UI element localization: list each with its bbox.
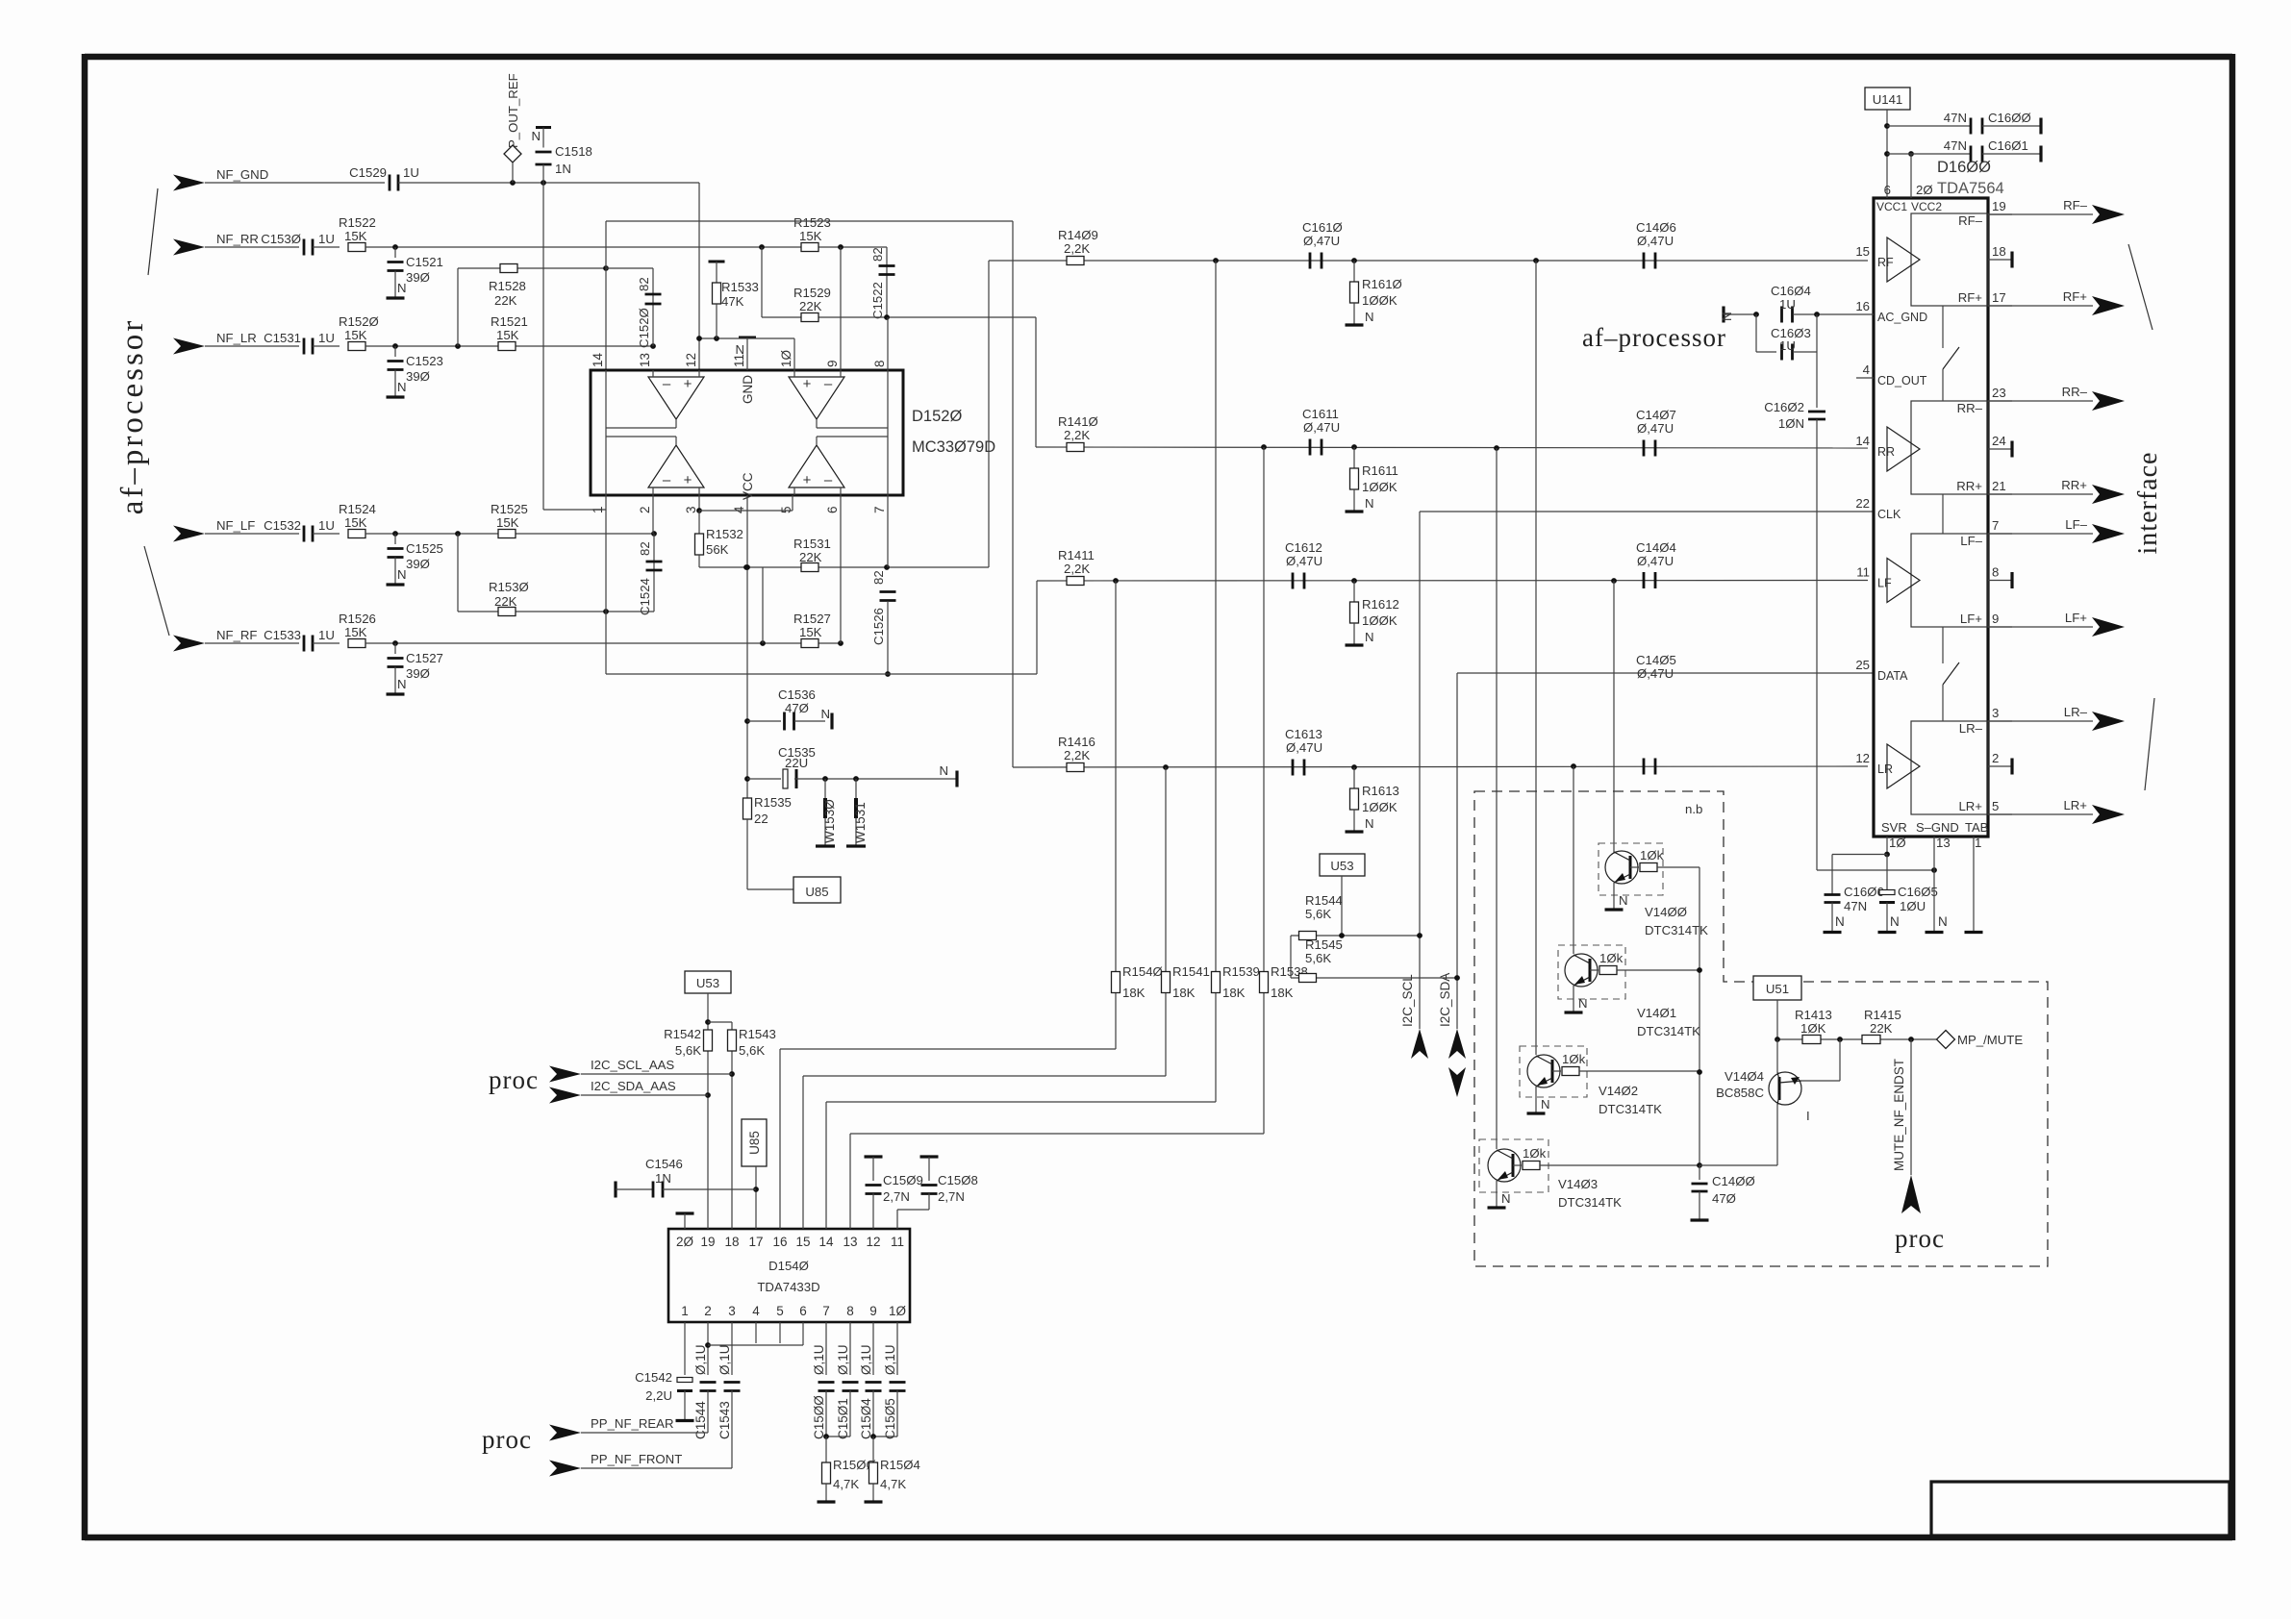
svg-text:N: N xyxy=(1501,1191,1511,1206)
svg-text:Ø,1U: Ø,1U xyxy=(836,1344,850,1375)
svg-text:DTC314TK: DTC314TK xyxy=(1558,1195,1622,1210)
svg-text:N: N xyxy=(1720,312,1734,321)
svg-text:C14Ø7: C14Ø7 xyxy=(1636,408,1676,422)
svg-text:I2C_SCL: I2C_SCL xyxy=(1400,974,1415,1027)
svg-text:R152Ø: R152Ø xyxy=(339,314,379,329)
svg-text:25: 25 xyxy=(1855,658,1870,672)
svg-text:–: – xyxy=(663,472,671,488)
svg-text:C152Ø: C152Ø xyxy=(637,308,651,348)
svg-text:47N: 47N xyxy=(1944,111,1967,125)
svg-text:2Ø: 2Ø xyxy=(676,1235,694,1249)
svg-text:Ø,1U: Ø,1U xyxy=(812,1344,826,1375)
svg-text:C1536: C1536 xyxy=(778,687,816,702)
svg-text:2,2K: 2,2K xyxy=(1064,241,1090,256)
svg-text:C16Ø4: C16Ø4 xyxy=(1771,284,1811,298)
svg-text:LF–: LF– xyxy=(1960,534,1982,548)
svg-text:R141Ø: R141Ø xyxy=(1058,414,1098,429)
svg-text:5,6K: 5,6K xyxy=(675,1043,701,1058)
svg-text:U85: U85 xyxy=(805,885,828,899)
svg-text:LR+: LR+ xyxy=(2063,798,2087,812)
svg-text:U141: U141 xyxy=(1873,92,1903,107)
svg-text:N: N xyxy=(1365,496,1374,511)
svg-text:1Ø: 1Ø xyxy=(1889,836,1906,850)
svg-text:W1531: W1531 xyxy=(853,802,868,843)
svg-text:C15Ø8: C15Ø8 xyxy=(938,1173,978,1187)
svg-text:6: 6 xyxy=(799,1304,807,1318)
svg-text:1ØU: 1ØU xyxy=(1900,899,1926,913)
svg-text:LF: LF xyxy=(1877,577,1892,590)
svg-text:C1529: C1529 xyxy=(349,165,387,180)
svg-text:15K: 15K xyxy=(496,328,519,342)
svg-text:C16Ø2: C16Ø2 xyxy=(1764,400,1804,414)
svg-text:N: N xyxy=(397,380,407,394)
svg-text:47N: 47N xyxy=(1844,899,1867,913)
svg-text:16: 16 xyxy=(772,1235,787,1249)
svg-text:R1541: R1541 xyxy=(1172,964,1210,979)
svg-text:82: 82 xyxy=(637,277,651,291)
svg-text:Ø,47U: Ø,47U xyxy=(1286,554,1322,568)
svg-text:C16ØØ: C16ØØ xyxy=(1988,111,2031,125)
svg-text:R1539: R1539 xyxy=(1222,964,1260,979)
svg-text:C1611: C1611 xyxy=(1302,407,1339,421)
svg-text:1U: 1U xyxy=(318,232,335,246)
svg-text:RF+: RF+ xyxy=(2063,289,2088,304)
svg-text:NF_LR: NF_LR xyxy=(216,331,257,345)
svg-text:1N: 1N xyxy=(655,1171,671,1186)
svg-text:TDA7433D: TDA7433D xyxy=(757,1280,819,1294)
svg-text:I2C_SDA_AAS: I2C_SDA_AAS xyxy=(591,1079,676,1093)
svg-text:R1532: R1532 xyxy=(706,527,743,541)
svg-text:PP_NF_REAR: PP_NF_REAR xyxy=(591,1416,673,1431)
svg-text:RR–: RR– xyxy=(1957,401,1983,415)
svg-text:R1531: R1531 xyxy=(793,537,831,551)
svg-text:V14Ø1: V14Ø1 xyxy=(1637,1006,1676,1020)
svg-text:1ØØK: 1ØØK xyxy=(1362,480,1397,494)
svg-text:4,7K: 4,7K xyxy=(880,1477,906,1491)
svg-text:82: 82 xyxy=(871,570,886,585)
svg-text:1U: 1U xyxy=(318,518,335,533)
svg-text:af–processor: af–processor xyxy=(115,318,150,515)
svg-text:15K: 15K xyxy=(496,515,519,530)
svg-text:C1518: C1518 xyxy=(555,144,592,159)
svg-text:I2C_SDA: I2C_SDA xyxy=(1438,973,1452,1027)
svg-text:18K: 18K xyxy=(1172,986,1196,1000)
svg-text:proc: proc xyxy=(489,1065,539,1094)
svg-text:N: N xyxy=(531,129,541,143)
svg-text:R1416: R1416 xyxy=(1058,735,1095,749)
svg-text:1ØØK: 1ØØK xyxy=(1362,613,1397,628)
svg-text:1Ø: 1Ø xyxy=(889,1304,907,1318)
svg-text:39Ø: 39Ø xyxy=(406,557,430,571)
svg-text:15: 15 xyxy=(795,1235,810,1249)
svg-text:R1545: R1545 xyxy=(1305,937,1343,952)
svg-text:S–GND: S–GND xyxy=(1916,820,1959,835)
svg-text:R1533: R1533 xyxy=(721,280,759,294)
svg-text:R1535: R1535 xyxy=(754,795,792,810)
svg-text:NF_LF: NF_LF xyxy=(216,518,255,533)
svg-text:C16Ø6: C16Ø6 xyxy=(1844,885,1884,899)
svg-text:C1542: C1542 xyxy=(635,1370,672,1385)
svg-text:R15Ø4: R15Ø4 xyxy=(880,1458,920,1472)
svg-text:NF_RR: NF_RR xyxy=(216,232,259,246)
svg-text:9: 9 xyxy=(825,360,840,367)
svg-text:C14ØØ: C14ØØ xyxy=(1712,1174,1755,1188)
svg-text:D154Ø: D154Ø xyxy=(768,1259,809,1273)
svg-text:39Ø: 39Ø xyxy=(406,666,430,681)
svg-text:18K: 18K xyxy=(1222,986,1246,1000)
svg-text:7: 7 xyxy=(872,506,887,513)
svg-text:C15ØØ: C15ØØ xyxy=(812,1395,826,1439)
svg-text:4: 4 xyxy=(1863,362,1870,377)
svg-text:47N: 47N xyxy=(1944,138,1967,153)
svg-text:23: 23 xyxy=(1992,386,2006,400)
svg-text:CD_OUT: CD_OUT xyxy=(1877,374,1927,387)
svg-text:C15Ø4: C15Ø4 xyxy=(859,1398,873,1439)
svg-text:N: N xyxy=(1578,996,1588,1011)
svg-text:1ØØK: 1ØØK xyxy=(1362,800,1397,814)
svg-text:56K: 56K xyxy=(706,542,729,557)
svg-text:proc: proc xyxy=(1895,1224,1945,1253)
svg-text:C16Ø5: C16Ø5 xyxy=(1898,885,1938,899)
svg-text:1: 1 xyxy=(591,506,605,513)
svg-text:18: 18 xyxy=(724,1235,739,1249)
svg-text:af–processor: af–processor xyxy=(1582,323,1726,352)
svg-text:C1523: C1523 xyxy=(406,354,443,368)
svg-text:C16Ø1: C16Ø1 xyxy=(1988,138,2028,153)
svg-text:D152Ø: D152Ø xyxy=(912,408,962,425)
svg-text:V14Ø2: V14Ø2 xyxy=(1599,1084,1638,1098)
svg-text:–: – xyxy=(824,472,833,488)
svg-text:–: – xyxy=(663,376,671,392)
svg-text:N: N xyxy=(1890,914,1900,929)
svg-text:Ø,1U: Ø,1U xyxy=(883,1344,897,1375)
svg-text:47Ø: 47Ø xyxy=(1712,1191,1736,1206)
svg-text:Ø,47U: Ø,47U xyxy=(1286,740,1322,755)
svg-text:2,2K: 2,2K xyxy=(1064,428,1090,442)
svg-text:R1411: R1411 xyxy=(1058,548,1095,562)
svg-text:2,7N: 2,7N xyxy=(883,1189,910,1204)
svg-text:C1525: C1525 xyxy=(406,541,443,556)
svg-text:12: 12 xyxy=(866,1235,880,1249)
svg-text:11: 11 xyxy=(891,1235,904,1249)
svg-text:BC858C: BC858C xyxy=(1716,1086,1764,1100)
svg-text:13: 13 xyxy=(638,353,652,367)
svg-text:1Øk: 1Øk xyxy=(1523,1146,1547,1161)
svg-text:+: + xyxy=(803,376,812,392)
svg-text:12: 12 xyxy=(1855,751,1870,765)
svg-text:R1529: R1529 xyxy=(793,286,831,300)
svg-text:N: N xyxy=(397,677,407,691)
svg-text:AC_GND: AC_GND xyxy=(1877,311,1927,324)
svg-text:22K: 22K xyxy=(494,293,517,308)
svg-text:RR: RR xyxy=(1877,445,1895,459)
svg-text:C15Ø5: C15Ø5 xyxy=(883,1398,897,1439)
svg-text:I2C_SCL_AAS: I2C_SCL_AAS xyxy=(591,1058,674,1072)
svg-text:R1528: R1528 xyxy=(489,279,526,293)
svg-text:Ø,47U: Ø,47U xyxy=(1637,554,1674,568)
svg-text:TAB: TAB xyxy=(1965,820,1988,835)
svg-text:C1532: C1532 xyxy=(264,518,301,533)
svg-text:DTC314TK: DTC314TK xyxy=(1637,1024,1700,1038)
svg-text:2Ø: 2Ø xyxy=(1916,183,1933,197)
svg-text:1N: 1N xyxy=(555,162,571,176)
svg-text:17: 17 xyxy=(1992,290,2006,305)
svg-text:R154Ø: R154Ø xyxy=(1122,964,1163,979)
svg-text:1: 1 xyxy=(681,1304,689,1318)
svg-text:C1544: C1544 xyxy=(693,1401,708,1439)
svg-text:1ØK: 1ØK xyxy=(1800,1021,1826,1036)
svg-text:3: 3 xyxy=(1992,706,1999,720)
svg-text:15: 15 xyxy=(1855,244,1870,259)
svg-text:21: 21 xyxy=(1992,479,2006,493)
svg-text:82: 82 xyxy=(638,541,652,556)
svg-text:VCC2: VCC2 xyxy=(1911,200,1942,213)
svg-text:R1544: R1544 xyxy=(1305,893,1343,908)
svg-text:1U: 1U xyxy=(1779,297,1796,312)
svg-text:47Ø: 47Ø xyxy=(785,701,809,715)
svg-text:R1522: R1522 xyxy=(339,215,376,230)
svg-text:LF–: LF– xyxy=(2065,517,2087,532)
svg-text:C1543: C1543 xyxy=(718,1401,732,1439)
svg-text:1Øk: 1Øk xyxy=(1562,1052,1586,1066)
svg-text:14: 14 xyxy=(591,352,605,367)
svg-text:TDA7564: TDA7564 xyxy=(1937,180,2004,197)
svg-text:LR–: LR– xyxy=(1959,721,1983,736)
svg-text:2,7N: 2,7N xyxy=(938,1189,965,1204)
svg-text:82: 82 xyxy=(870,247,885,262)
svg-text:Ø,1U: Ø,1U xyxy=(693,1344,708,1375)
svg-text:3: 3 xyxy=(684,506,698,513)
svg-text:NF_RF: NF_RF xyxy=(216,628,258,642)
svg-text:LR: LR xyxy=(1877,762,1893,776)
svg-text:PP_NF_FRONT: PP_NF_FRONT xyxy=(591,1452,682,1466)
svg-text:22K: 22K xyxy=(1870,1021,1893,1036)
svg-text:CLK: CLK xyxy=(1877,508,1901,521)
svg-text:C15Ø9: C15Ø9 xyxy=(883,1173,923,1187)
svg-text:1: 1 xyxy=(1975,836,1981,850)
svg-text:1U: 1U xyxy=(318,331,335,345)
svg-text:R1523: R1523 xyxy=(793,215,831,230)
svg-text:18K: 18K xyxy=(1122,986,1145,1000)
svg-text:LR–: LR– xyxy=(2064,705,2088,719)
svg-text:C14Ø4: C14Ø4 xyxy=(1636,540,1676,555)
svg-text:14: 14 xyxy=(1855,434,1870,448)
svg-text:Ø,47U: Ø,47U xyxy=(1637,234,1674,248)
svg-text:15K: 15K xyxy=(344,328,367,342)
svg-text:C1524: C1524 xyxy=(638,578,652,615)
svg-text:MC33Ø79D: MC33Ø79D xyxy=(912,438,995,456)
svg-text:N: N xyxy=(1365,630,1374,644)
svg-text:–: – xyxy=(824,376,833,392)
svg-text:18K: 18K xyxy=(1271,986,1294,1000)
svg-text:U85: U85 xyxy=(747,1131,762,1155)
svg-text:19: 19 xyxy=(1992,199,2006,213)
svg-text:7: 7 xyxy=(1992,518,1999,533)
svg-text:2,2U: 2,2U xyxy=(645,1388,672,1403)
svg-text:5: 5 xyxy=(779,506,793,513)
svg-text:12: 12 xyxy=(684,353,698,367)
svg-text:N: N xyxy=(397,567,407,582)
svg-text:R1613: R1613 xyxy=(1362,784,1399,798)
svg-text:MP_/MUTE: MP_/MUTE xyxy=(1957,1033,2023,1047)
svg-text:4,7K: 4,7K xyxy=(833,1477,859,1491)
svg-text:DTC314TK: DTC314TK xyxy=(1599,1102,1662,1116)
svg-text:R1526: R1526 xyxy=(339,612,376,626)
svg-text:5: 5 xyxy=(1992,799,1999,813)
svg-text:+: + xyxy=(803,472,812,488)
svg-text:R14Ø9: R14Ø9 xyxy=(1058,228,1098,242)
svg-text:D16ØØ: D16ØØ xyxy=(1937,159,1991,176)
svg-text:N: N xyxy=(1365,310,1374,324)
svg-text:N: N xyxy=(939,763,948,778)
svg-text:DATA: DATA xyxy=(1877,669,1908,683)
svg-text:C1546: C1546 xyxy=(645,1157,683,1171)
svg-text:24: 24 xyxy=(1992,434,2006,448)
svg-text:22K: 22K xyxy=(799,550,822,564)
svg-text:1ØN: 1ØN xyxy=(1778,416,1804,431)
svg-text:Ø,47U: Ø,47U xyxy=(1637,421,1674,436)
svg-text:19: 19 xyxy=(700,1235,715,1249)
svg-text:39Ø: 39Ø xyxy=(406,270,430,285)
svg-text:15K: 15K xyxy=(799,625,822,639)
svg-text:1ØØK: 1ØØK xyxy=(1362,293,1397,308)
svg-text:4: 4 xyxy=(732,506,746,513)
svg-text:39Ø: 39Ø xyxy=(406,369,430,384)
svg-text:Ø,1U: Ø,1U xyxy=(718,1344,732,1375)
svg-text:N: N xyxy=(1541,1097,1550,1112)
svg-text:C153Ø: C153Ø xyxy=(261,232,301,246)
svg-text:5,6K: 5,6K xyxy=(1305,907,1331,921)
svg-text:N: N xyxy=(735,342,744,357)
svg-text:1U: 1U xyxy=(318,628,335,642)
svg-text:C1613: C1613 xyxy=(1285,727,1322,741)
svg-text:6: 6 xyxy=(825,506,840,513)
svg-text:C1521: C1521 xyxy=(406,255,443,269)
svg-text:11: 11 xyxy=(1856,565,1870,580)
svg-text:V14ØØ: V14ØØ xyxy=(1645,905,1687,919)
svg-text:2,2K: 2,2K xyxy=(1064,562,1090,576)
svg-text:C14Ø5: C14Ø5 xyxy=(1636,653,1676,667)
svg-text:6: 6 xyxy=(1884,183,1891,197)
svg-text:R1543: R1543 xyxy=(739,1027,776,1041)
svg-text:RF: RF xyxy=(1877,256,1894,269)
svg-text:RF–: RF– xyxy=(1958,213,1983,228)
svg-text:22: 22 xyxy=(754,812,768,826)
svg-text:VCC1: VCC1 xyxy=(1876,200,1907,213)
svg-text:R1542: R1542 xyxy=(664,1027,701,1041)
svg-text:RR+: RR+ xyxy=(1956,479,1982,493)
svg-text:R1524: R1524 xyxy=(339,502,376,516)
svg-text:RR+: RR+ xyxy=(2061,478,2087,492)
svg-text:RR–: RR– xyxy=(2062,385,2088,399)
svg-text:17: 17 xyxy=(748,1235,763,1249)
svg-text:22: 22 xyxy=(1855,496,1870,511)
svg-text:16: 16 xyxy=(1855,299,1870,313)
svg-text:+: + xyxy=(684,472,692,488)
svg-text:LR+: LR+ xyxy=(1958,799,1982,813)
svg-text:R1415: R1415 xyxy=(1864,1008,1901,1022)
svg-text:2: 2 xyxy=(704,1304,712,1318)
svg-text:1Øk: 1Øk xyxy=(1640,848,1664,862)
svg-text:W153Ø: W153Ø xyxy=(822,799,837,843)
svg-text:Ø,47U: Ø,47U xyxy=(1303,234,1340,248)
svg-text:C14Ø6: C14Ø6 xyxy=(1636,220,1676,235)
svg-text:22U: 22U xyxy=(785,756,808,770)
svg-text:Ø,47U: Ø,47U xyxy=(1303,420,1340,435)
svg-text:15K: 15K xyxy=(344,229,367,243)
svg-text:R1527: R1527 xyxy=(793,612,831,626)
svg-text:SVR: SVR xyxy=(1881,820,1907,835)
svg-text:8: 8 xyxy=(846,1304,854,1318)
svg-text:14: 14 xyxy=(818,1235,834,1249)
svg-text:V14Ø3: V14Ø3 xyxy=(1558,1177,1598,1191)
svg-text:18: 18 xyxy=(1992,244,2006,259)
svg-text:15K: 15K xyxy=(344,625,367,639)
svg-text:interface: interface xyxy=(2133,452,2163,555)
svg-text:N: N xyxy=(1835,914,1845,929)
svg-text:C1533: C1533 xyxy=(264,628,301,642)
svg-text:n.b: n.b xyxy=(1685,802,1702,816)
svg-text:7: 7 xyxy=(822,1304,830,1318)
svg-text:V14Ø4: V14Ø4 xyxy=(1725,1069,1764,1084)
svg-text:R1525: R1525 xyxy=(491,502,528,516)
svg-text:proc: proc xyxy=(482,1425,532,1454)
svg-text:N: N xyxy=(820,707,830,721)
svg-text:GND: GND xyxy=(741,375,755,404)
svg-text:R1521: R1521 xyxy=(491,314,528,329)
svg-text:R153Ø: R153Ø xyxy=(489,580,529,594)
svg-text:N: N xyxy=(1365,816,1374,831)
svg-text:LF+: LF+ xyxy=(2065,611,2087,625)
svg-text:NF_GND: NF_GND xyxy=(216,167,268,182)
svg-text:1U: 1U xyxy=(403,165,419,180)
svg-text:C1612: C1612 xyxy=(1285,540,1322,555)
svg-text:RF–: RF– xyxy=(2063,198,2088,212)
svg-text:5,6K: 5,6K xyxy=(739,1043,765,1058)
svg-text:C1531: C1531 xyxy=(264,331,301,345)
svg-text:R1413: R1413 xyxy=(1795,1008,1832,1022)
svg-text:9: 9 xyxy=(869,1304,877,1318)
svg-text:LF+: LF+ xyxy=(1960,612,1982,626)
svg-text:C1526: C1526 xyxy=(871,608,886,645)
svg-text:1Øk: 1Øk xyxy=(1599,951,1624,965)
svg-text:MUTE_NF_ENDST: MUTE_NF_ENDST xyxy=(1892,1059,1906,1171)
svg-text:4: 4 xyxy=(752,1304,760,1318)
svg-text:N: N xyxy=(1938,914,1948,929)
svg-text:R161Ø: R161Ø xyxy=(1362,277,1402,291)
svg-text:U53: U53 xyxy=(1330,859,1353,873)
svg-text:C1527: C1527 xyxy=(406,651,443,665)
svg-text:R1612: R1612 xyxy=(1362,597,1399,612)
svg-text:+: + xyxy=(684,376,692,392)
svg-text:R1611: R1611 xyxy=(1362,463,1398,478)
svg-text:9: 9 xyxy=(1992,612,1999,626)
svg-text:3: 3 xyxy=(728,1304,736,1318)
svg-text:5,6K: 5,6K xyxy=(1305,951,1331,965)
svg-text:U53: U53 xyxy=(696,976,719,990)
svg-text:N: N xyxy=(397,281,407,295)
svg-text:22K: 22K xyxy=(494,594,517,609)
svg-text:1Ø: 1Ø xyxy=(779,349,793,367)
svg-text:C161Ø: C161Ø xyxy=(1302,220,1343,235)
svg-text:13: 13 xyxy=(843,1235,857,1249)
svg-text:2: 2 xyxy=(638,506,652,513)
svg-text:C1522: C1522 xyxy=(870,282,885,319)
svg-text:5: 5 xyxy=(776,1304,784,1318)
svg-text:13: 13 xyxy=(1936,836,1951,850)
svg-text:DTC314TK: DTC314TK xyxy=(1645,923,1708,937)
svg-text:1U: 1U xyxy=(1779,338,1796,353)
